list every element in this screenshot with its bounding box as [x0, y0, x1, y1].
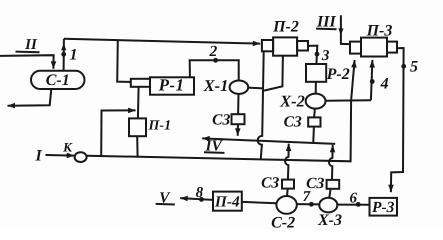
- wire P-2 box bottom diagonal to X-1 junction: [264, 56, 283, 91]
- svg-text:СЗ: СЗ: [261, 175, 279, 192]
- pump K: [75, 152, 87, 162]
- mixer X-2: [279, 92, 325, 111]
- valve SZ above X-3: [306, 175, 339, 192]
- reactor R-3: [370, 198, 398, 216]
- C-1 outlet arrow: [8, 89, 52, 106]
- node 7: [309, 202, 314, 207]
- wire stream I arrow into pump K: [46, 154, 75, 157]
- svg-text:К: К: [62, 139, 73, 154]
- wire C-2 up to SZ: [286, 189, 289, 197]
- valve SZ under X-2: [284, 113, 321, 130]
- stream III label: [316, 13, 337, 30]
- wire SZ down to IV: [312, 127, 315, 142]
- stream V label: [156, 190, 175, 207]
- stream II label: [16, 37, 40, 53]
- svg-text:Х-2: Х-2: [279, 92, 305, 111]
- node 6: [356, 202, 361, 207]
- svg-text:С-1: С-1: [46, 72, 70, 89]
- wire X-1 right to junction: [248, 87, 263, 90]
- wire X-3 to R-3: [337, 204, 369, 206]
- node 1: [61, 52, 66, 57]
- stream IV label: [204, 138, 225, 155]
- furnace P-2: [262, 18, 308, 55]
- separator C-2: [271, 196, 297, 231]
- svg-text:Х-1: Х-1: [203, 76, 229, 95]
- stream II underline: [16, 51, 40, 54]
- reactor R-1: [131, 75, 194, 94]
- stream V underline: [156, 203, 175, 206]
- wire X-2 out to right: [326, 99, 371, 102]
- wire P-2 left rect down, hop over IV, merge into I-line: [258, 51, 264, 159]
- wire C-2 to X-3: [297, 203, 320, 205]
- heater P-4: [213, 192, 242, 211]
- wire X-1 down to SZ: [237, 94, 239, 114]
- wire stream II into C-1: [0, 55, 54, 69]
- node 4: [370, 79, 375, 84]
- separator C-1: [31, 71, 85, 89]
- furnace P-3: [350, 23, 397, 57]
- wire stream III into P-3: [341, 15, 350, 44]
- node 5: [401, 64, 406, 69]
- svg-text:С-2: С-2: [271, 214, 295, 229]
- node 3: [315, 52, 320, 57]
- heater P-1: [129, 118, 171, 136]
- node 2: [213, 58, 218, 63]
- branch wire from I-line with arrow: [101, 110, 135, 156]
- top rail wire to P-2: [64, 39, 260, 44]
- I-line wire to X-2 junction: [87, 101, 352, 161]
- wire C-1 to top rail: [63, 39, 65, 71]
- svg-text:8: 8: [196, 185, 204, 201]
- svg-text:Х-3: Х-3: [317, 212, 342, 229]
- svg-text:3: 3: [321, 48, 330, 64]
- arrowhead up on node-1 wire: [61, 43, 66, 50]
- wire P-1 down to I-line: [136, 136, 138, 157]
- svg-text:П-3: П-3: [366, 23, 393, 40]
- wire riser to P-3 left rect: [351, 60, 355, 101]
- svg-text:П-2: П-2: [272, 18, 299, 35]
- svg-text:6: 6: [349, 190, 357, 206]
- mixer X-1: [203, 76, 249, 95]
- stream IV wire: [202, 138, 335, 144]
- wire 4-riser to P-3: [371, 60, 373, 100]
- svg-text:I: I: [34, 148, 42, 165]
- svg-text:Р-3: Р-3: [372, 199, 395, 216]
- stream III underline: [316, 28, 337, 31]
- wire X-3 riser hop I-line arrow to IV: [329, 145, 333, 180]
- wire P-4 to C-2: [242, 202, 277, 203]
- wire C-2 riser hop I-line arrow to IV: [285, 144, 289, 180]
- svg-text:2: 2: [209, 43, 218, 60]
- svg-text:П-1: П-1: [148, 119, 172, 134]
- node 8: [199, 197, 204, 202]
- wire 5-line P-3 to R-3: [391, 48, 404, 192]
- mixer X-3: [317, 198, 342, 229]
- wire rail to R-1: [117, 40, 131, 82]
- stream IV underline: [204, 151, 225, 154]
- svg-text:СЗ: СЗ: [284, 113, 302, 130]
- wire SZ arrow down to IV: [237, 124, 239, 136]
- wire 2-line R-1 to X-1: [190, 60, 239, 80]
- svg-text:П-4: П-4: [214, 194, 240, 211]
- wire X-3 up to SZ: [329, 189, 330, 198]
- wire X-2 down to SZ: [313, 109, 316, 118]
- wire R-1 down to P-1: [137, 87, 140, 119]
- wire out of P-4 to V: [180, 198, 213, 200]
- svg-text:II: II: [24, 37, 38, 53]
- svg-text:Р-1: Р-1: [158, 75, 185, 94]
- wire R-2 to X-2: [315, 82, 317, 94]
- svg-text:Р-2: Р-2: [326, 66, 350, 83]
- svg-text:1: 1: [70, 46, 78, 63]
- svg-text:5: 5: [410, 58, 418, 75]
- reactor R-2: [306, 64, 350, 83]
- valve SZ under X-1: [212, 111, 244, 128]
- svg-text:СЗ: СЗ: [212, 111, 230, 128]
- svg-text:4: 4: [380, 75, 389, 92]
- valve SZ above C-2: [261, 175, 294, 192]
- wire node-3 P-2 to R-2: [308, 46, 317, 64]
- svg-text:СЗ: СЗ: [306, 175, 324, 192]
- arrowhead down on III wire: [338, 28, 343, 35]
